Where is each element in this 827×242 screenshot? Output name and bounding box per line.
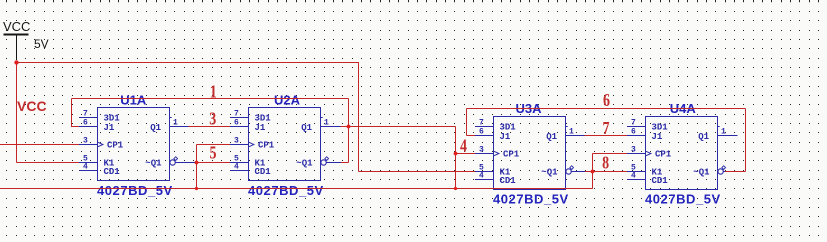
U4A pin 2 inversion bubble (~Q1 output) bbox=[718, 169, 723, 174]
wire net 5 to U2A K1 bbox=[197, 162, 231, 164]
svg-text:4027BD_5V: 4027BD_5V bbox=[248, 183, 324, 198]
wire net 6 riser bbox=[466, 109, 468, 136]
svg-text:Q1: Q1 bbox=[301, 123, 312, 133]
svg-text:8: 8 bbox=[602, 154, 609, 173]
svg-text:5V: 5V bbox=[34, 37, 49, 51]
svg-text:7: 7 bbox=[479, 119, 484, 128]
wire net 1 drop to U2A outputs bbox=[348, 99, 350, 163]
U1A pin 4 stub (CD1) bbox=[79, 170, 98, 172]
wire net 7 U3A Q1 to U4A J1 bbox=[585, 135, 628, 137]
U4A body outline bbox=[646, 117, 718, 190]
svg-text:6: 6 bbox=[603, 92, 610, 111]
flip-flop U2A (4027BD_5V JK flip-flop) bbox=[230, 92, 341, 197]
U2A body outline bbox=[249, 108, 321, 181]
svg-text:Q1: Q1 bbox=[546, 132, 557, 142]
wire from U2A ~Q1 stub bbox=[341, 162, 349, 164]
U1A pin 1 stub (Q1 output) bbox=[170, 126, 189, 128]
junction U3A ~Q1 node bbox=[591, 170, 595, 174]
U4A pin 4 stub (CD1) bbox=[627, 179, 646, 181]
wire net 8 riser to U4A CP bbox=[592, 154, 594, 172]
wire VCC into U3A pin 5 bbox=[359, 171, 476, 173]
wire net 5 drop to bottom bus bbox=[196, 163, 198, 189]
svg-text:4: 4 bbox=[479, 172, 484, 181]
svg-text:1: 1 bbox=[721, 127, 726, 136]
svg-text:3: 3 bbox=[209, 110, 216, 129]
svg-text:4027BD_5V: 4027BD_5V bbox=[645, 192, 721, 207]
U1A right edge pin tick at 3D1 row bbox=[170, 117, 172, 119]
svg-text:J1: J1 bbox=[500, 132, 511, 142]
U4A pin 7 stub (3D1) bbox=[627, 126, 646, 128]
U1A pin 2 inversion bubble (~Q1 output) bbox=[170, 160, 175, 165]
svg-text:1: 1 bbox=[173, 118, 178, 127]
wire VCC drop to U3A K1 bbox=[358, 62, 360, 172]
svg-text:4027BD_5V: 4027BD_5V bbox=[97, 183, 173, 198]
U2A pin 2 end diamond marker bbox=[325, 157, 329, 161]
svg-text:1: 1 bbox=[569, 127, 574, 136]
flip-flop U3A (4027BD_5V JK flip-flop) bbox=[475, 101, 585, 206]
U2A pin 2 stub (~Q1) bbox=[326, 162, 341, 164]
U3A pin 4 stub (CD1) bbox=[475, 179, 494, 181]
svg-text:6: 6 bbox=[83, 119, 88, 128]
U4A pin 6 stub (J1) bbox=[627, 135, 646, 137]
wire into U1A CP1 from left edge bbox=[0, 144, 79, 146]
svg-text:CD1: CD1 bbox=[500, 176, 517, 186]
U1A pin 2 end diamond marker bbox=[174, 157, 178, 161]
power symbol VCC bar bbox=[4, 34, 29, 36]
wire net 5 riser to U2A CP bbox=[196, 145, 198, 163]
U3A clock wedge on CP1 bbox=[494, 151, 499, 155]
U1A pin 3 stub (CP1 clock) bbox=[79, 144, 98, 146]
U1A pin 6 stub (J1) bbox=[79, 126, 98, 128]
junction VCC rail bbox=[14, 60, 18, 64]
svg-text:4: 4 bbox=[631, 172, 636, 181]
U2A pin 6 stub (J1) bbox=[230, 126, 249, 128]
wire VCC drop left bbox=[16, 63, 18, 163]
U4A pin 3 stub (CP1 clock) bbox=[627, 153, 646, 155]
U1A clock wedge on CP1 bbox=[98, 142, 103, 146]
wire VCC into U1A pin 5 bbox=[17, 162, 80, 164]
svg-text:~Q1: ~Q1 bbox=[541, 168, 558, 178]
junction net 4 node bbox=[454, 152, 458, 156]
junction bottom bus left bbox=[195, 187, 198, 190]
wire from U2A Q1 heading right bbox=[341, 126, 456, 128]
U3A pin 1 stub (Q1 output) bbox=[566, 135, 585, 137]
U4A pin 2 end diamond marker bbox=[722, 166, 726, 170]
svg-text:CP1: CP1 bbox=[258, 141, 275, 151]
U2A right edge pin tick at 3D1 row bbox=[321, 117, 323, 119]
wire net 6 top run bbox=[467, 108, 746, 110]
svg-text:CD1: CD1 bbox=[652, 176, 669, 186]
U3A pin 3 stub (CP1 clock) bbox=[475, 153, 494, 155]
svg-text:1: 1 bbox=[210, 83, 217, 102]
U2A pin 2 inversion bubble (~Q1 output) bbox=[321, 160, 326, 165]
svg-text:VCC: VCC bbox=[17, 98, 47, 114]
svg-text:3: 3 bbox=[631, 146, 636, 155]
svg-text:CP1: CP1 bbox=[503, 150, 520, 160]
svg-text:3: 3 bbox=[479, 146, 484, 155]
wire VCC rail top horizontal bbox=[17, 62, 359, 64]
U3A pin 2 inversion bubble (~Q1 output) bbox=[566, 169, 571, 174]
U3A body outline bbox=[494, 117, 566, 190]
svg-text:1: 1 bbox=[324, 118, 329, 127]
svg-text:J1: J1 bbox=[652, 132, 663, 142]
junction U2A Q1 node bbox=[347, 125, 351, 129]
junction U1A ~Q1 node bbox=[195, 161, 199, 165]
svg-text:6: 6 bbox=[631, 128, 636, 137]
svg-text:Q1: Q1 bbox=[150, 123, 161, 133]
U4A right edge pin tick at 3D1 row bbox=[718, 126, 720, 128]
svg-text:~Q1: ~Q1 bbox=[296, 159, 313, 169]
svg-text:4: 4 bbox=[460, 137, 467, 156]
svg-text:4: 4 bbox=[234, 163, 239, 172]
U3A pin 2 end diamond marker bbox=[570, 166, 574, 170]
U1A pin 7 stub (3D1) bbox=[79, 117, 98, 119]
wire net 4 into U3A CP1 bbox=[456, 153, 476, 155]
wire net 1 riser bbox=[71, 99, 73, 128]
svg-text:7: 7 bbox=[631, 119, 636, 128]
U2A pin 3 stub (CP1 clock) bbox=[230, 144, 249, 146]
svg-text:U2A: U2A bbox=[274, 92, 301, 107]
U1A pin 5 stub (K1) bbox=[79, 162, 98, 164]
U3A pin 7 stub (3D1) bbox=[475, 126, 494, 128]
wire net 6 drop bbox=[745, 109, 747, 172]
wire net 1 from U1A J1 bbox=[72, 126, 80, 128]
svg-text:4027BD_5V: 4027BD_5V bbox=[493, 192, 569, 207]
U4A pin 2 stub (~Q1) bbox=[723, 171, 726, 173]
U2A pin 7 stub (3D1) bbox=[230, 117, 249, 119]
wire net 4 vertical bbox=[455, 127, 457, 189]
U3A pin 6 stub (J1) bbox=[475, 135, 494, 137]
U2A pin 5 stub (K1) bbox=[230, 162, 249, 164]
U3A right edge pin tick at 3D1 row bbox=[566, 126, 568, 128]
svg-text:CD1: CD1 bbox=[255, 167, 272, 177]
svg-text:J1: J1 bbox=[104, 123, 115, 133]
U2A pin 4 stub (CD1) bbox=[230, 170, 249, 172]
svg-text:Q1: Q1 bbox=[698, 132, 709, 142]
svg-text:~Q1: ~Q1 bbox=[693, 168, 710, 178]
U4A pin 1 stub (Q1 output) bbox=[718, 135, 738, 137]
U1A body outline bbox=[98, 108, 170, 181]
wire net 8 U3A ~Q1 to U4A K1 bbox=[585, 171, 627, 173]
junction bottom bus right bbox=[454, 187, 457, 190]
svg-text:~Q1: ~Q1 bbox=[145, 159, 162, 169]
svg-text:J1: J1 bbox=[255, 123, 266, 133]
wire net 3 U1A Q1 to U2A J1 bbox=[189, 126, 231, 128]
U3A pin 5 stub (K1) bbox=[475, 171, 494, 173]
U2A clock wedge on CP1 bbox=[249, 142, 254, 146]
svg-text:7: 7 bbox=[234, 110, 239, 119]
wire bottom bus bbox=[0, 188, 593, 190]
svg-text:6: 6 bbox=[234, 119, 239, 128]
U4A clock wedge on CP1 bbox=[646, 151, 651, 155]
svg-text:CP1: CP1 bbox=[107, 141, 124, 151]
wire into U2A CP1 bbox=[197, 144, 231, 146]
svg-text:7: 7 bbox=[603, 120, 610, 139]
svg-text:3: 3 bbox=[83, 137, 88, 146]
svg-text:CP1: CP1 bbox=[655, 150, 672, 160]
U1A pin 2 stub (~Q1) bbox=[175, 162, 196, 164]
svg-text:5: 5 bbox=[210, 144, 217, 163]
flip-flop U1A (4027BD_5V JK flip-flop) bbox=[79, 92, 197, 197]
wire net 6 from U3A J1 bbox=[467, 135, 476, 137]
svg-text:CD1: CD1 bbox=[104, 167, 121, 177]
power symbol lead bbox=[16, 36, 18, 61]
wire net 1 top run bbox=[72, 98, 349, 100]
svg-text:7: 7 bbox=[83, 110, 88, 119]
wire net 6 into U4A ~Q1 bbox=[725, 171, 746, 173]
wire into U4A CP1 bbox=[593, 153, 628, 155]
svg-text:4: 4 bbox=[83, 163, 88, 172]
U3A pin 2 stub (~Q1) bbox=[571, 171, 585, 173]
U4A pin 5 stub (K1) bbox=[627, 171, 646, 173]
wire net 8 drop to bottom bus bbox=[592, 172, 594, 189]
svg-text:U1A: U1A bbox=[120, 92, 147, 107]
svg-text:VCC: VCC bbox=[3, 19, 30, 34]
U2A pin 1 stub (Q1 output) bbox=[321, 126, 341, 128]
svg-text:6: 6 bbox=[479, 128, 484, 137]
svg-text:3: 3 bbox=[234, 137, 239, 146]
flip-flop U4A (4027BD_5V JK flip-flop) bbox=[627, 101, 738, 206]
